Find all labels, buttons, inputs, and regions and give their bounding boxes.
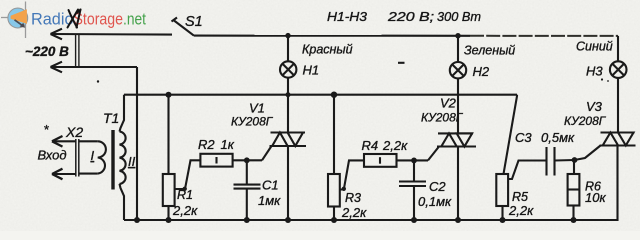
node bottom bus at R5 [500, 217, 506, 223]
wire secondary top to bus [120, 95, 125, 132]
connector X2 bars [75, 139, 77, 177]
lamp H2 [450, 36, 490, 79]
node bottom bus at V1 [285, 217, 291, 223]
svg-text:Н2: Н2 [473, 64, 490, 79]
connector X1 bottom pin arrow [51, 62, 63, 73]
node top line at H2 [455, 33, 460, 38]
svg-text:Radio: Radio [31, 11, 74, 29]
wire V2 to bottom bus [457, 147, 459, 221]
wire X1 top to S1 [51, 33, 172, 36]
wire R1 to bottom bus [167, 206, 169, 220]
svg-text:Т1: Т1 [103, 110, 119, 126]
triac V2 [437, 133, 476, 146]
node R4/R3 junction [342, 187, 346, 191]
svg-text:Н1: Н1 [303, 63, 320, 78]
node bottom bus at R6 [571, 217, 577, 223]
resistor R6 [568, 174, 580, 206]
svg-text:КУ208Г: КУ208Г [564, 114, 607, 128]
svg-text:R3: R3 [345, 191, 361, 205]
wire top corner down to H3 [617, 36, 619, 61]
node R2/R1 junction [183, 187, 187, 191]
svg-text:Красный: Красный [302, 43, 353, 57]
wire bus to R3 [333, 95, 335, 174]
transformer T1 core [111, 130, 114, 190]
svg-text:2,2к: 2,2к [341, 205, 367, 220]
connector X1 top pin arrow [51, 29, 63, 40]
triac V1 [270, 133, 307, 147]
triac V3 [600, 133, 636, 146]
svg-text:V3: V3 [586, 99, 603, 114]
wire top line S1 to right corner [194, 35, 470, 37]
wire bus to R1 [167, 95, 169, 174]
wire R2 left to R1 [175, 160, 201, 189]
wire R2 right to gate node [233, 159, 262, 161]
svg-text:Н3: Н3 [586, 64, 603, 79]
node bus at R1 [166, 92, 172, 98]
wire H1 to V1 [287, 78, 289, 133]
node gate V3 [572, 157, 578, 163]
wire gate diagonal V3 [575, 146, 601, 161]
wire signal bus [124, 94, 517, 96]
svg-text:С3: С3 [515, 130, 532, 145]
node bottom bus at C1 [244, 217, 250, 223]
svg-text:V2: V2 [440, 96, 457, 111]
svg-text:I: I [91, 148, 95, 163]
svg-text:S1: S1 [185, 14, 203, 30]
connector X1 label [68, 10, 81, 28]
node bottom bus at C2 [411, 217, 417, 223]
wire R4 left to R3 [340, 160, 364, 189]
logo RadioStorage.net icon [1, 2, 28, 39]
svg-text:С2: С2 [429, 179, 446, 194]
wire bottom bus [124, 146, 618, 220]
stray mark specks [601, 78, 603, 80]
svg-text:220 В;: 220 В; [387, 10, 435, 24]
node bottom bus at R1 [166, 217, 172, 223]
svg-text:Зеленый: Зеленый [464, 44, 515, 58]
resistor R2 [200, 154, 232, 167]
node bottom bus at mains [134, 217, 140, 223]
svg-text:0,5мк: 0,5мк [541, 130, 575, 145]
svg-text:Н1-Н3: Н1-Н3 [327, 10, 367, 24]
svg-text:.net: .net [123, 11, 146, 29]
node bus at H1 crossing [286, 92, 291, 97]
capacitor C1 [234, 160, 282, 220]
wire R5 to bottom bus [501, 206, 503, 220]
resistor R1 [163, 174, 175, 206]
svg-text:2,2к: 2,2к [382, 138, 408, 153]
connector X2 bottom pin arrow [52, 169, 76, 180]
wire gate diagonal V1 [262, 146, 272, 160]
wire bus corner to R5 [504, 95, 518, 174]
wire X1 bottom to corner [51, 66, 137, 68]
resistor R3 [328, 174, 340, 207]
wire R6 to bottom bus [572, 206, 574, 221]
lamp H1 [280, 36, 319, 78]
wire H2 to V2 [457, 78, 459, 133]
connector X1 bracket [75, 34, 77, 67]
switch S1 [172, 14, 203, 36]
connector X2 top pin arrow [52, 136, 76, 147]
svg-text:10к: 10к [585, 190, 606, 205]
svg-text:V1: V1 [249, 101, 265, 116]
wire C3 node to R6 [573, 160, 575, 174]
stray mark dash [398, 62, 405, 64]
node bus at R3 [331, 92, 337, 98]
transformer T1 primary winding I [79, 141, 106, 173]
node gate V1 [244, 157, 250, 163]
svg-text:КУ208Г: КУ208Г [421, 111, 464, 125]
node top line at H1 [285, 33, 290, 38]
transformer T1 secondary winding II [120, 132, 126, 184]
svg-text:Вход: Вход [38, 148, 67, 163]
wire gate diagonal V2 [428, 147, 439, 161]
svg-text:КУ208Г: КУ208Г [231, 115, 274, 129]
wire R3 to bottom bus [333, 207, 335, 221]
svg-text:R5: R5 [512, 190, 528, 204]
svg-text:R4: R4 [362, 138, 379, 153]
capacitor C2 [399, 160, 452, 220]
wire secondary bottom to bus [120, 184, 125, 220]
stray mark speck left [97, 80, 99, 82]
svg-text:~220 В: ~220 В [25, 44, 69, 59]
svg-text:Storage: Storage [74, 11, 124, 29]
svg-text:1мк: 1мк [258, 193, 281, 208]
svg-text:R2: R2 [198, 137, 215, 152]
svg-text:2,2к: 2,2к [172, 203, 198, 218]
wire C3 left to R5 [508, 161, 546, 180]
svg-text:С1: С1 [262, 178, 279, 193]
svg-text:*: * [44, 122, 49, 137]
resistor R5 [496, 174, 508, 206]
capacitor C3 [515, 130, 575, 176]
wire H3 to V3 [617, 78, 619, 133]
node gate V2 [411, 158, 417, 164]
svg-text:2,2к: 2,2к [508, 203, 534, 218]
wire mains vertical down to bottom bus [136, 67, 138, 220]
svg-text:0,1мк: 0,1мк [418, 194, 452, 209]
wire R4 right to gate node [397, 159, 429, 161]
svg-text:Х2: Х2 [65, 124, 83, 140]
node bottom bus at V2 [455, 217, 461, 223]
svg-text:300 Вт: 300 Вт [437, 10, 481, 24]
svg-text:Синий: Синий [576, 40, 613, 54]
lamp H3 [586, 61, 627, 78]
resistor R4 [364, 154, 397, 167]
wire V1 to bottom bus [287, 146, 289, 220]
svg-text:1к: 1к [221, 137, 235, 152]
svg-text:II: II [128, 154, 136, 169]
node bottom bus at R3 [331, 217, 337, 223]
